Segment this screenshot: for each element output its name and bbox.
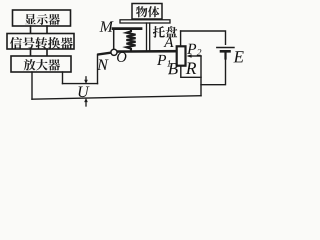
object box	[132, 4, 162, 20]
P2 arrow	[189, 55, 201, 57]
text 物体	[136, 6, 159, 17]
wire amplifier left down to bottom rail	[31, 72, 33, 99]
lever bar left end at N	[99, 52, 114, 54]
wire P2 vertical	[200, 56, 202, 96]
display box (xianshiqi)	[13, 10, 71, 26]
frame top bar M	[113, 27, 141, 30]
top wire to battery	[181, 31, 226, 44]
wire A stub up	[180, 31, 182, 45]
battery long plate	[217, 47, 234, 49]
wire pair display to converter	[31, 26, 48, 34]
wire B stub	[181, 67, 201, 78]
label A	[163, 37, 173, 47]
resistor slab R	[177, 46, 186, 65]
label O	[117, 52, 126, 62]
wire amplifier right down	[62, 72, 64, 84]
tray bar	[120, 20, 170, 23]
signal converter box	[7, 34, 74, 50]
wire U upper segment	[63, 83, 98, 85]
tray rod double line	[147, 23, 150, 50]
wire battery down	[201, 59, 226, 85]
battery short plate	[221, 50, 230, 53]
pivot circle O	[111, 49, 117, 55]
wire pair converter to amplifier	[31, 49, 48, 56]
text 信号转换器	[10, 37, 73, 49]
text 放大器	[24, 59, 60, 71]
label M	[99, 21, 113, 31]
battery lower stub	[224, 53, 226, 59]
lever bar O to P1	[112, 50, 176, 53]
frame left vertical	[113, 30, 115, 51]
label U	[79, 87, 90, 98]
label B	[168, 63, 178, 74]
label R	[186, 63, 196, 74]
U down arrow	[85, 77, 87, 81]
U up arrow	[85, 101, 87, 106]
wire up to lever N	[97, 55, 99, 84]
label P2	[187, 44, 201, 56]
amplifier box	[11, 56, 71, 72]
label E	[233, 51, 243, 62]
spring	[126, 30, 135, 50]
text 显示器	[25, 14, 60, 25]
text 托盘	[153, 26, 178, 38]
label N	[97, 60, 109, 70]
label P1	[157, 55, 170, 67]
bottom wire rail	[32, 96, 201, 100]
